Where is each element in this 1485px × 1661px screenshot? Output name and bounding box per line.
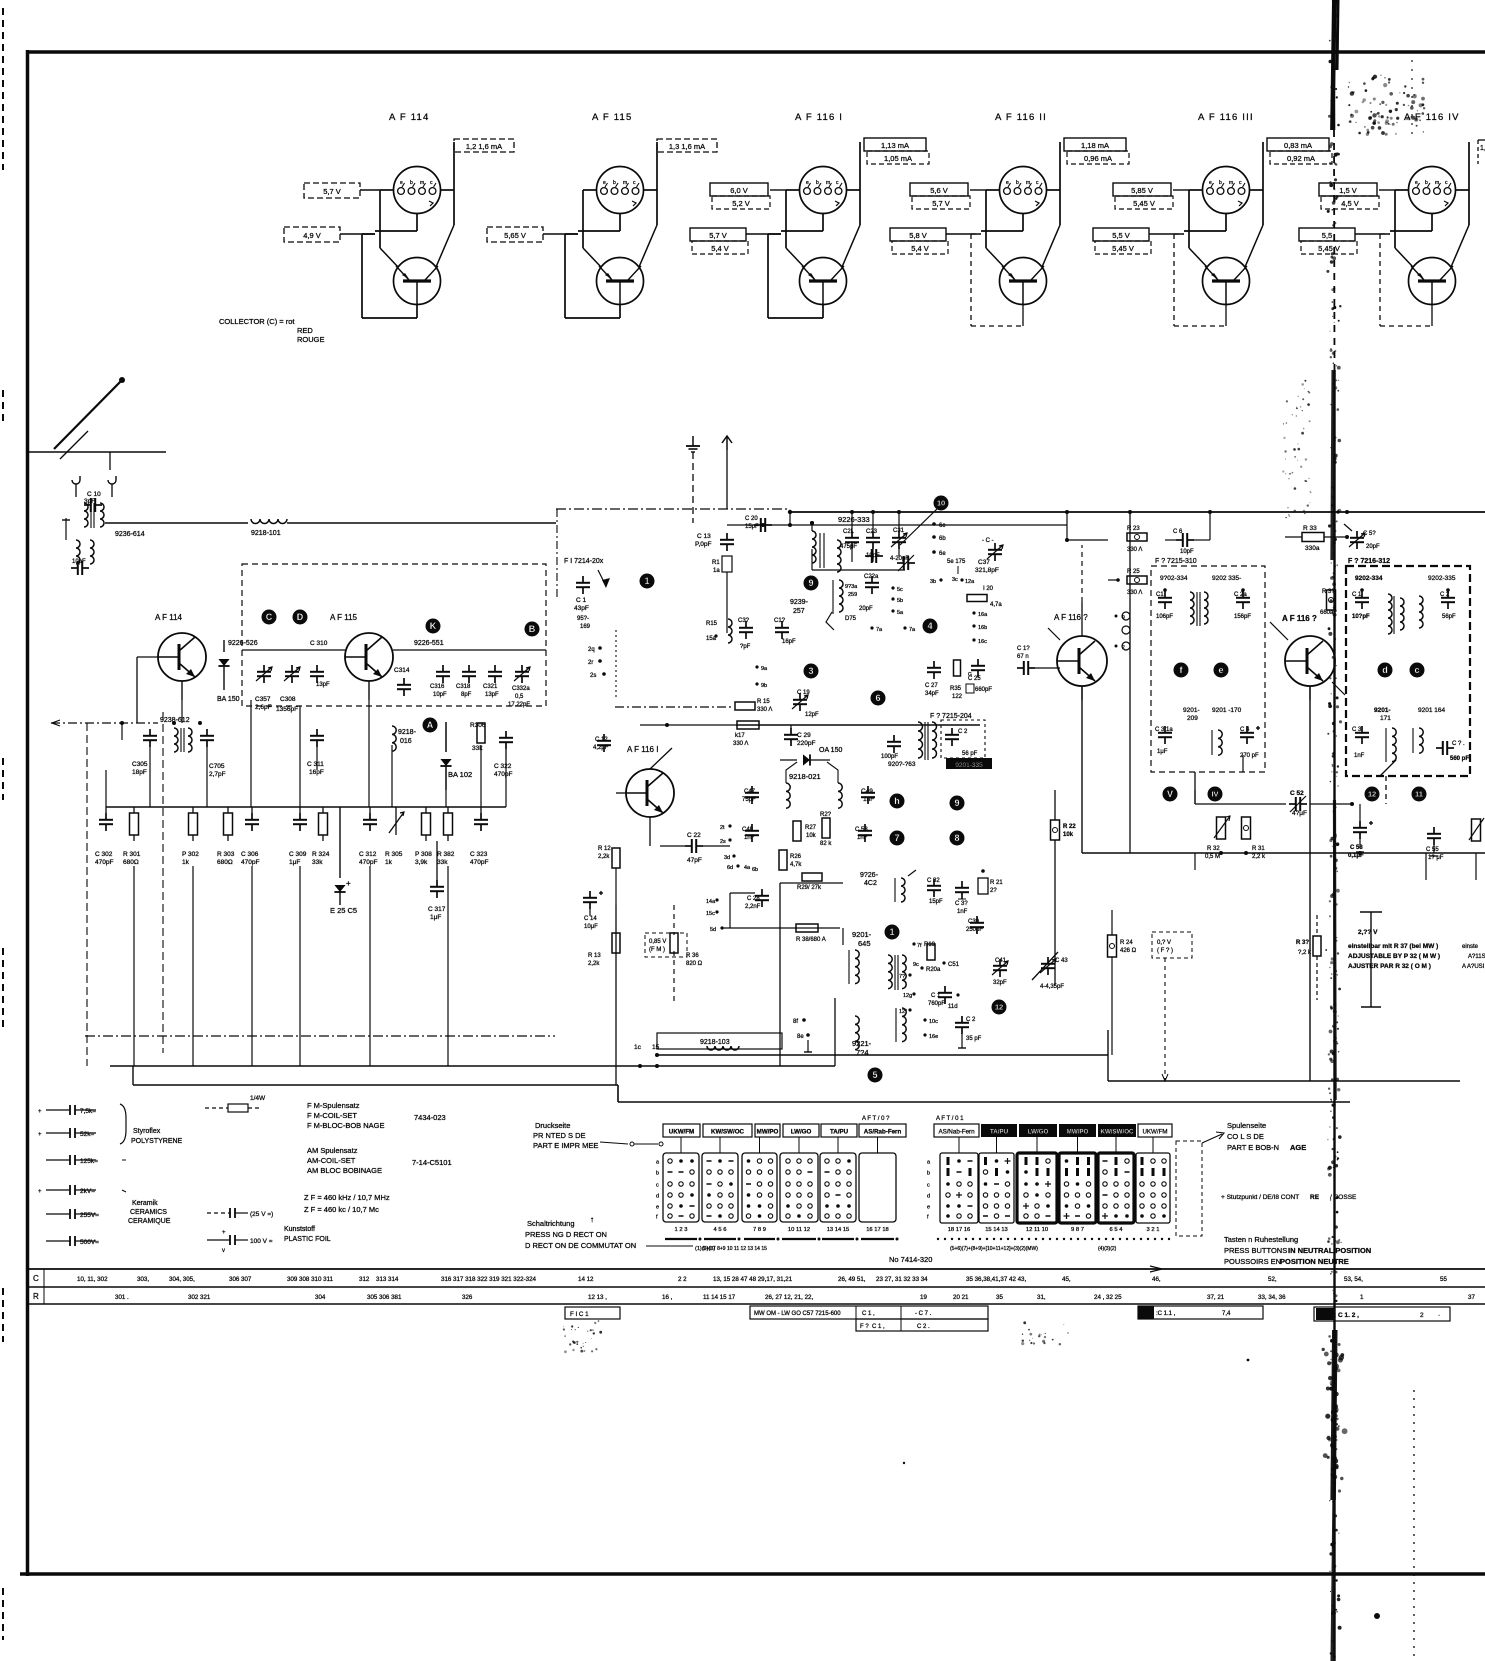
resistor R15 330 [735,699,772,713]
svg-text:35: 35 [996,1294,1003,1301]
svg-text:304: 304 [315,1294,326,1301]
svg-text:e: e [806,180,809,186]
svg-text:4C2: 4C2 [864,880,877,887]
capacitor C54 20pF [1344,524,1380,550]
switch group 2 contact box 5 [1098,1137,1134,1223]
capacitor C310 13pF [310,640,330,688]
node C [262,610,277,625]
svg-text:e: e [400,180,403,186]
sheet fold mark left margin [2,8,4,1640]
svg-text:C 1: C 1 [1352,592,1362,598]
svg-text:5,5 V: 5,5 V [1112,231,1130,240]
svg-text:G: G [968,672,972,678]
capacitor C316 10pF [430,665,450,698]
table divider [43,1269,45,1304]
svg-text:9201-: 9201- [1374,707,1391,714]
svg-text:b: b [656,1171,659,1177]
transistor Q6 AF116IV bottom view [1409,258,1456,305]
svg-text:R 13: R 13 [588,953,601,959]
svg-text:2,2k: 2,2k [588,961,600,967]
svg-text:12 13 ,: 12 13 , [588,1294,607,1301]
svg-text:c: c [927,1183,930,1189]
svg-text:4,5 V: 4,5 V [1341,199,1359,208]
svg-text:C 28: C 28 [747,896,760,902]
svg-text:2,?? V: 2,?? V [1358,929,1378,936]
wire column drops [134,866,448,1066]
table line bottom [26,1303,1485,1305]
scan noise mid right [1282,380,1311,519]
trimmer cap [897,555,915,571]
svg-text:R 32: R 32 [1207,846,1220,852]
svg-text:Keramik: Keramik [132,1200,158,1207]
inductor 9218-016 [392,726,417,751]
svg-text:einste: einste [1462,944,1479,950]
svg-text:BA 102: BA 102 [448,770,472,779]
wire ground bus dashed [85,1035,555,1037]
svg-text:1nF: 1nF [863,796,874,803]
resistor R20 4,7k [967,586,1002,608]
svg-text:680Ω: 680Ω [123,859,139,866]
transistor AF115 [345,633,393,700]
wire FM box top bus [242,649,546,651]
resistor R21 [978,869,1003,894]
svg-text:9218-: 9218- [398,729,417,736]
svg-text:9226-526: 9226-526 [228,640,258,647]
label 9202-335b [1212,575,1241,582]
wire Q5 collector loop (dashed) [1174,234,1226,326]
svg-text:1: 1 [1360,1294,1364,1301]
svg-text:5,7 V: 5,7 V [323,187,341,196]
svg-text:R: R [33,1292,39,1301]
svg-text:7?: 7? [899,974,905,980]
svg-text:C 22: C 22 [687,832,701,839]
svg-text:KW/SW/OC: KW/SW/OC [711,1129,745,1136]
switch group 1 contact box 5 [820,1137,856,1222]
svg-text:Styroflex: Styroflex [133,1128,161,1135]
svg-text:C22a: C22a [864,574,879,580]
svg-text:C 2: C 2 [958,729,968,735]
voltage box 5,7 V/5,4 V Q3 [690,228,781,254]
wire component row bus [106,806,506,808]
svg-text:257: 257 [793,608,805,615]
switch group 1 contact box 1 [663,1137,699,1222]
svg-text:7,4: 7,4 [1222,1311,1231,1317]
svg-text:C 27: C 27 [925,683,938,689]
svg-text:470pF: 470pF [470,859,488,866]
oscillator transformer [888,955,906,990]
svg-text:Z F = 460 kHz / 10,7 MHz: Z F = 460 kHz / 10,7 MHz [304,1193,390,1202]
label Tasten Ruhestellung [1224,1235,1371,1266]
svg-text:10pF: 10pF [433,692,447,698]
svg-text:C41: C41 [995,958,1007,964]
resistor R36 820 [670,905,703,1005]
svg-text:C 2 .: C 2 . [917,1324,930,1330]
svg-text:- C 7 .: - C 7 . [915,1311,932,1317]
resistor P 308 3,9k [415,807,432,866]
svg-text:470pF: 470pF [95,859,113,866]
svg-text:16b: 16b [978,625,987,631]
label 9221-704 [852,1039,872,1057]
label A F 116 II [995,112,1047,123]
svg-text:C 2: C 2 [1440,592,1450,598]
svg-text:32pF: 32pF [993,980,1007,986]
capacitor C23 [866,529,880,559]
svg-text:1k: 1k [385,859,393,866]
node 8 [950,831,965,846]
svg-text:C 2a: C 2a [1234,592,1247,598]
svg-text:b: b [613,180,616,186]
svg-text:645: 645 [858,939,871,948]
svg-text:LW/GO: LW/GO [1028,1129,1049,1136]
switch group 1 row letters [656,1160,660,1221]
svg-text:F M-Spulensatz: F M-Spulensatz [307,1101,360,1110]
svg-text:330 Λ: 330 Λ [733,741,748,747]
svg-text:255V=: 255V= [80,1212,99,1219]
svg-text:C49: C49 [861,788,873,795]
wire FIII FIV drops [1195,755,1386,804]
svg-text:15c: 15c [706,911,715,917]
wire Q3 interconnect [781,142,860,267]
svg-text:+: + [222,1230,226,1236]
svg-text:POLYSTYRENE: POLYSTYRENE [131,1138,183,1145]
capacitor 100pF [881,735,901,760]
svg-text:PART E BOB-N: PART E BOB-N [1227,1143,1279,1152]
svg-text:301 .: 301 . [115,1294,129,1301]
svg-text:IN NEUTRAL POSITION: IN NEUTRAL POSITION [1288,1246,1371,1255]
svg-text:R27: R27 [805,825,817,831]
svg-text:5,5: 5,5 [1322,231,1332,240]
svg-text:(F M ): (F M ) [649,947,665,953]
svg-text:C 10: C 10 [87,491,101,498]
wire top main bus [727,510,1485,527]
pins 16a 16b 16c [972,611,988,645]
svg-text:52,: 52, [1268,1276,1277,1283]
resistor P 302 1k [182,807,199,866]
svg-text:P 308: P 308 [415,851,432,858]
svg-text:7a: 7a [876,627,883,633]
svg-text:1μF: 1μF [430,914,441,921]
transistor AF116 II [1048,613,1107,700]
svg-text:4,9 V: 4,9 V [303,231,321,240]
transistor Q6 AF116IV top view [1409,167,1456,214]
node 9 [804,576,819,591]
pins 10c 10e [923,1018,938,1040]
svg-text:m: m [826,180,830,186]
label No 7414-320 [889,1255,932,1264]
capacitor C29 220pF [784,728,815,747]
svg-text:UKW/FM: UKW/FM [1142,1129,1167,1136]
svg-text:5d: 5d [710,927,716,933]
legend capacitor 255V= [46,1209,99,1219]
svg-text:9?02-334: 9?02-334 [1160,575,1188,582]
svg-text:6 5 4: 6 5 4 [1110,1227,1124,1233]
svg-text:R 382: R 382 [437,851,455,858]
svg-text:C ? .: C ? . [1452,741,1465,747]
svg-text:12a: 12a [965,579,975,585]
svg-text:A F 116 ?: A F 116 ? [1282,614,1317,623]
svg-text:10, 11, 302: 10, 11, 302 [77,1276,108,1283]
svg-text:8f: 8f [793,1019,798,1025]
legend resistor 1/4W [205,1095,266,1112]
svg-text:33k: 33k [312,859,323,866]
svg-text:1,13 mA: 1,13 mA [881,141,909,150]
svg-text:RE: RE [1310,1194,1320,1201]
label 9238-612 [160,717,190,724]
table line top [26,1266,1485,1272]
capacitor C19 12pF [792,690,819,718]
svg-text:2s: 2s [720,839,726,845]
wire antenna base [28,452,166,470]
transistor AF116 III [1270,622,1345,700]
svg-text:2,2nF: 2,2nF [745,904,761,910]
svg-text:F ? 7215-204: F ? 7215-204 [930,713,972,720]
svg-text:9201 164: 9201 164 [1418,707,1445,714]
svg-text:e: e [1209,180,1212,186]
svg-text:C 1?: C 1? [1017,646,1030,652]
capacitor C25 660pF [966,659,992,693]
varactor C43 [1032,952,1068,990]
svg-text:24 , 32 25: 24 , 32 25 [1094,1294,1122,1301]
resistor R 382 33k [437,807,455,866]
svg-text:4-4,35pF: 4-4,35pF [1040,984,1064,990]
svg-text:F I C 1: F I C 1 [570,1311,589,1318]
svg-text:2kV=: 2kV= [80,1188,95,1195]
coil T4c [1380,728,1396,776]
svg-text:9226-551: 9226-551 [414,640,444,647]
svg-text:5,45 V: 5,45 V [1112,244,1134,253]
svg-text:C37: C37 [978,559,990,566]
inductor L15 [706,619,732,643]
measurement box 1,2 1,6 mA for Q1 [454,139,514,152]
node V [1163,787,1178,802]
svg-text:304, 305,: 304, 305, [169,1276,195,1283]
svg-text:R19: R19 [924,942,936,948]
antenna rod [54,377,125,459]
wire dash-dot feed [51,720,158,726]
label 9201-209 [1183,707,1200,722]
svg-text:34pF: 34pF [925,691,939,697]
svg-text:2 2: 2 2 [678,1276,687,1283]
svg-text:75pF: 75pF [742,797,756,803]
capacitor C28 2,2nF [730,889,769,910]
capacitor C10 3pF [84,491,102,512]
svg-text:9202-335: 9202-335 [1428,575,1456,582]
svg-text:E 25 C5: E 25 C5 [330,906,357,915]
node IV [1208,787,1223,802]
svg-text:Kunststoff: Kunststoff [284,1226,315,1233]
table line mid [26,1286,1485,1288]
resistor R36b 1,2k [1296,915,1321,1000]
transistor Q2 AF115 top view [597,167,644,214]
svg-text:c: c [656,1183,659,1189]
resistor R38 680 [796,924,826,943]
wire ground bus 3 [657,1030,1460,1081]
svg-text:B: B [529,624,536,634]
voltage box 5,65 V Q2 [487,227,578,242]
svg-text:3,9k: 3,9k [415,859,428,866]
wire right top links [1065,512,1210,542]
svg-text:250pF: 250pF [966,927,983,933]
node 4 [923,619,938,634]
svg-text:C 3 1a: C 3 1a [1155,727,1173,733]
svg-text:13pF: 13pF [485,692,499,698]
svg-text:1μF: 1μF [1157,749,1168,755]
voltage box 5,85 V/5,45 V Q5 [1113,183,1189,209]
label Druckseite [533,1121,598,1150]
svg-text:10pF: 10pF [1180,549,1194,555]
svg-text:5,4 V: 5,4 V [711,244,729,253]
resistor R23 330 [1127,526,1147,553]
resistor R28 82k [820,812,832,847]
resistor R12 2,2k [598,846,620,868]
capacitor C314 [394,667,411,696]
svg-text:330 Λ: 330 Λ [757,707,772,713]
transistor AF114 [137,633,206,723]
label 9201-335 inverted [946,758,992,769]
node 1 tuner [640,574,655,589]
pin 2q 2r 2s [588,630,616,700]
svg-text:C 29: C 29 [797,732,811,739]
transistor Q3 AF116I bottom view [800,258,847,305]
svg-text:C 3: C 3 [1352,727,1362,733]
svg-text:0,5: 0,5 [515,694,524,700]
svg-text:Tasten n Ruhestellung: Tasten n Ruhestellung [1224,1235,1298,1244]
IF transformer T4a [1388,594,1404,634]
svg-text:(4)(3)(2): (4)(3)(2) [1098,1246,1117,1252]
svg-text:7f: 7f [917,943,922,949]
svg-text:9218-021: 9218-021 [789,772,821,781]
switch group 1 contact box 6 [859,1137,896,1222]
svg-text:C316: C316 [430,684,445,690]
svg-text:10c: 10c [929,1019,938,1025]
svg-text:35 pF: 35 pF [966,1036,982,1042]
capacitor coupling 10pF [865,549,883,563]
svg-text:1nF: 1nF [857,835,868,841]
switch group 2 contact box 6 [1136,1137,1170,1223]
svg-text:+: + [38,1189,42,1195]
label A F 116 I [795,112,843,123]
svg-text:100 V =: 100 V = [250,1238,273,1245]
node 7 [890,831,905,846]
svg-text:321,8pF: 321,8pF [975,567,999,574]
svg-text:PART E IMPR MEE: PART E IMPR MEE [533,1141,598,1150]
svg-text:IV: IV [1211,790,1218,799]
switch group 2 row letters [927,1160,931,1221]
svg-text:12 11 10: 12 11 10 [1026,1227,1048,1233]
svg-text:C 5?: C 5? [1363,531,1376,537]
node e [1214,663,1229,678]
svg-text:0,92 mA: 0,92 mA [1287,154,1315,163]
wire right bus y853 [1082,686,1485,1081]
svg-text:C1?: C1? [774,618,786,624]
svg-text:4,2pF: 4,2pF [593,745,609,751]
wire left dash drop [87,712,163,1066]
svg-text:67 n: 67 n [1017,654,1029,660]
svg-text:7a: 7a [909,627,916,633]
capacitor cluster C315 [738,618,753,650]
svg-text:R15: R15 [706,621,718,627]
voltage box 5,5/5,45 V Q6 [1299,228,1390,254]
label 1c 15 [634,1044,660,1068]
svg-text:15: 15 [652,1044,660,1051]
svg-text:C318: C318 [456,684,471,690]
resistor R19 [924,942,936,960]
svg-text:1,2 1,6 mA: 1,2 1,6 mA [466,142,502,151]
svg-text:R2?: R2? [820,812,832,818]
svg-text:A F 116 ?: A F 116 ? [1054,613,1088,622]
measurement box fragment Q6 [1478,140,1485,164]
svg-text:e: e [927,1205,930,1211]
svg-text:C705: C705 [209,763,225,770]
svg-text:680Ω: 680Ω [217,859,233,866]
svg-text:820 Ω: 820 Ω [686,961,703,967]
svg-text:1nF: 1nF [744,835,755,841]
svg-text:F M-BLOC-BOB NAGE: F M-BLOC-BOB NAGE [307,1121,385,1130]
arrow schaltrichtung [646,1246,715,1252]
svg-text:309 308 310 311: 309 308 310 311 [287,1276,334,1283]
capacitor C1 106pF FIII [1156,588,1173,620]
svg-text:OA 150: OA 150 [819,747,842,754]
wire Q1 collector loop [362,234,417,318]
wire top dash-dot bus [556,508,790,510]
svg-text:?,2 k: ?,2 k [1298,950,1312,956]
svg-text:R 23: R 23 [1127,526,1140,532]
coil T4d [1413,728,1423,753]
wire Q6 collector loop (dashed) [1380,234,1432,326]
svg-text:No 7414-320: No 7414-320 [889,1255,932,1264]
svg-text:2t: 2t [720,825,725,831]
svg-text:470pF: 470pF [241,859,259,866]
svg-text:C: C [266,612,273,622]
label 9201-164 [1418,707,1445,714]
svg-text:209: 209 [1187,715,1198,722]
svg-text:C39: C39 [968,919,980,925]
svg-text:1a: 1a [713,568,720,574]
svg-text:312: 312 [359,1276,370,1283]
label 5e 175 [930,559,975,585]
svg-text:3b: 3b [930,579,936,585]
node c [1410,663,1425,678]
wire IF can feeders [761,510,1349,570]
enclosure F III (dashed) [1151,566,1265,772]
table footer box MW OM [750,1306,988,1319]
legend capacitor 500V= [46,1236,99,1246]
svg-text:15 14 13: 15 14 13 [985,1227,1008,1233]
svg-text:10 11 12: 10 11 12 [788,1227,810,1233]
svg-text:A F 115: A F 115 [330,613,358,622]
svg-text:h: h [894,796,900,806]
measurement box 1,3 1,6 mA for Q2 [657,139,717,152]
svg-text:5c: 5c [897,587,903,593]
svg-text:125k=: 125k= [80,1158,98,1165]
scan crease vertical [1322,0,1348,1661]
wire osc verticals [780,725,843,945]
svg-text:6c: 6c [939,523,945,529]
switch group 2 travel dots [937,1238,1170,1240]
transformer 9218-021 [786,762,842,808]
svg-text:UKW/FM: UKW/FM [669,1129,694,1136]
svg-text:9239-: 9239- [790,599,809,606]
svg-text:R 3?: R 3? [1296,940,1309,946]
transformer L1 input [84,503,104,528]
svg-text:330a: 330a [1305,545,1320,552]
capacitor C 309 1μF [289,807,307,866]
pins 2x [720,824,758,873]
svg-text:R 22: R 22 [1063,824,1076,830]
svg-text:26, 49 51,: 26, 49 51, [838,1276,866,1283]
svg-text:43pF: 43pF [574,605,589,612]
capacitor C17 67n [1017,646,1060,675]
